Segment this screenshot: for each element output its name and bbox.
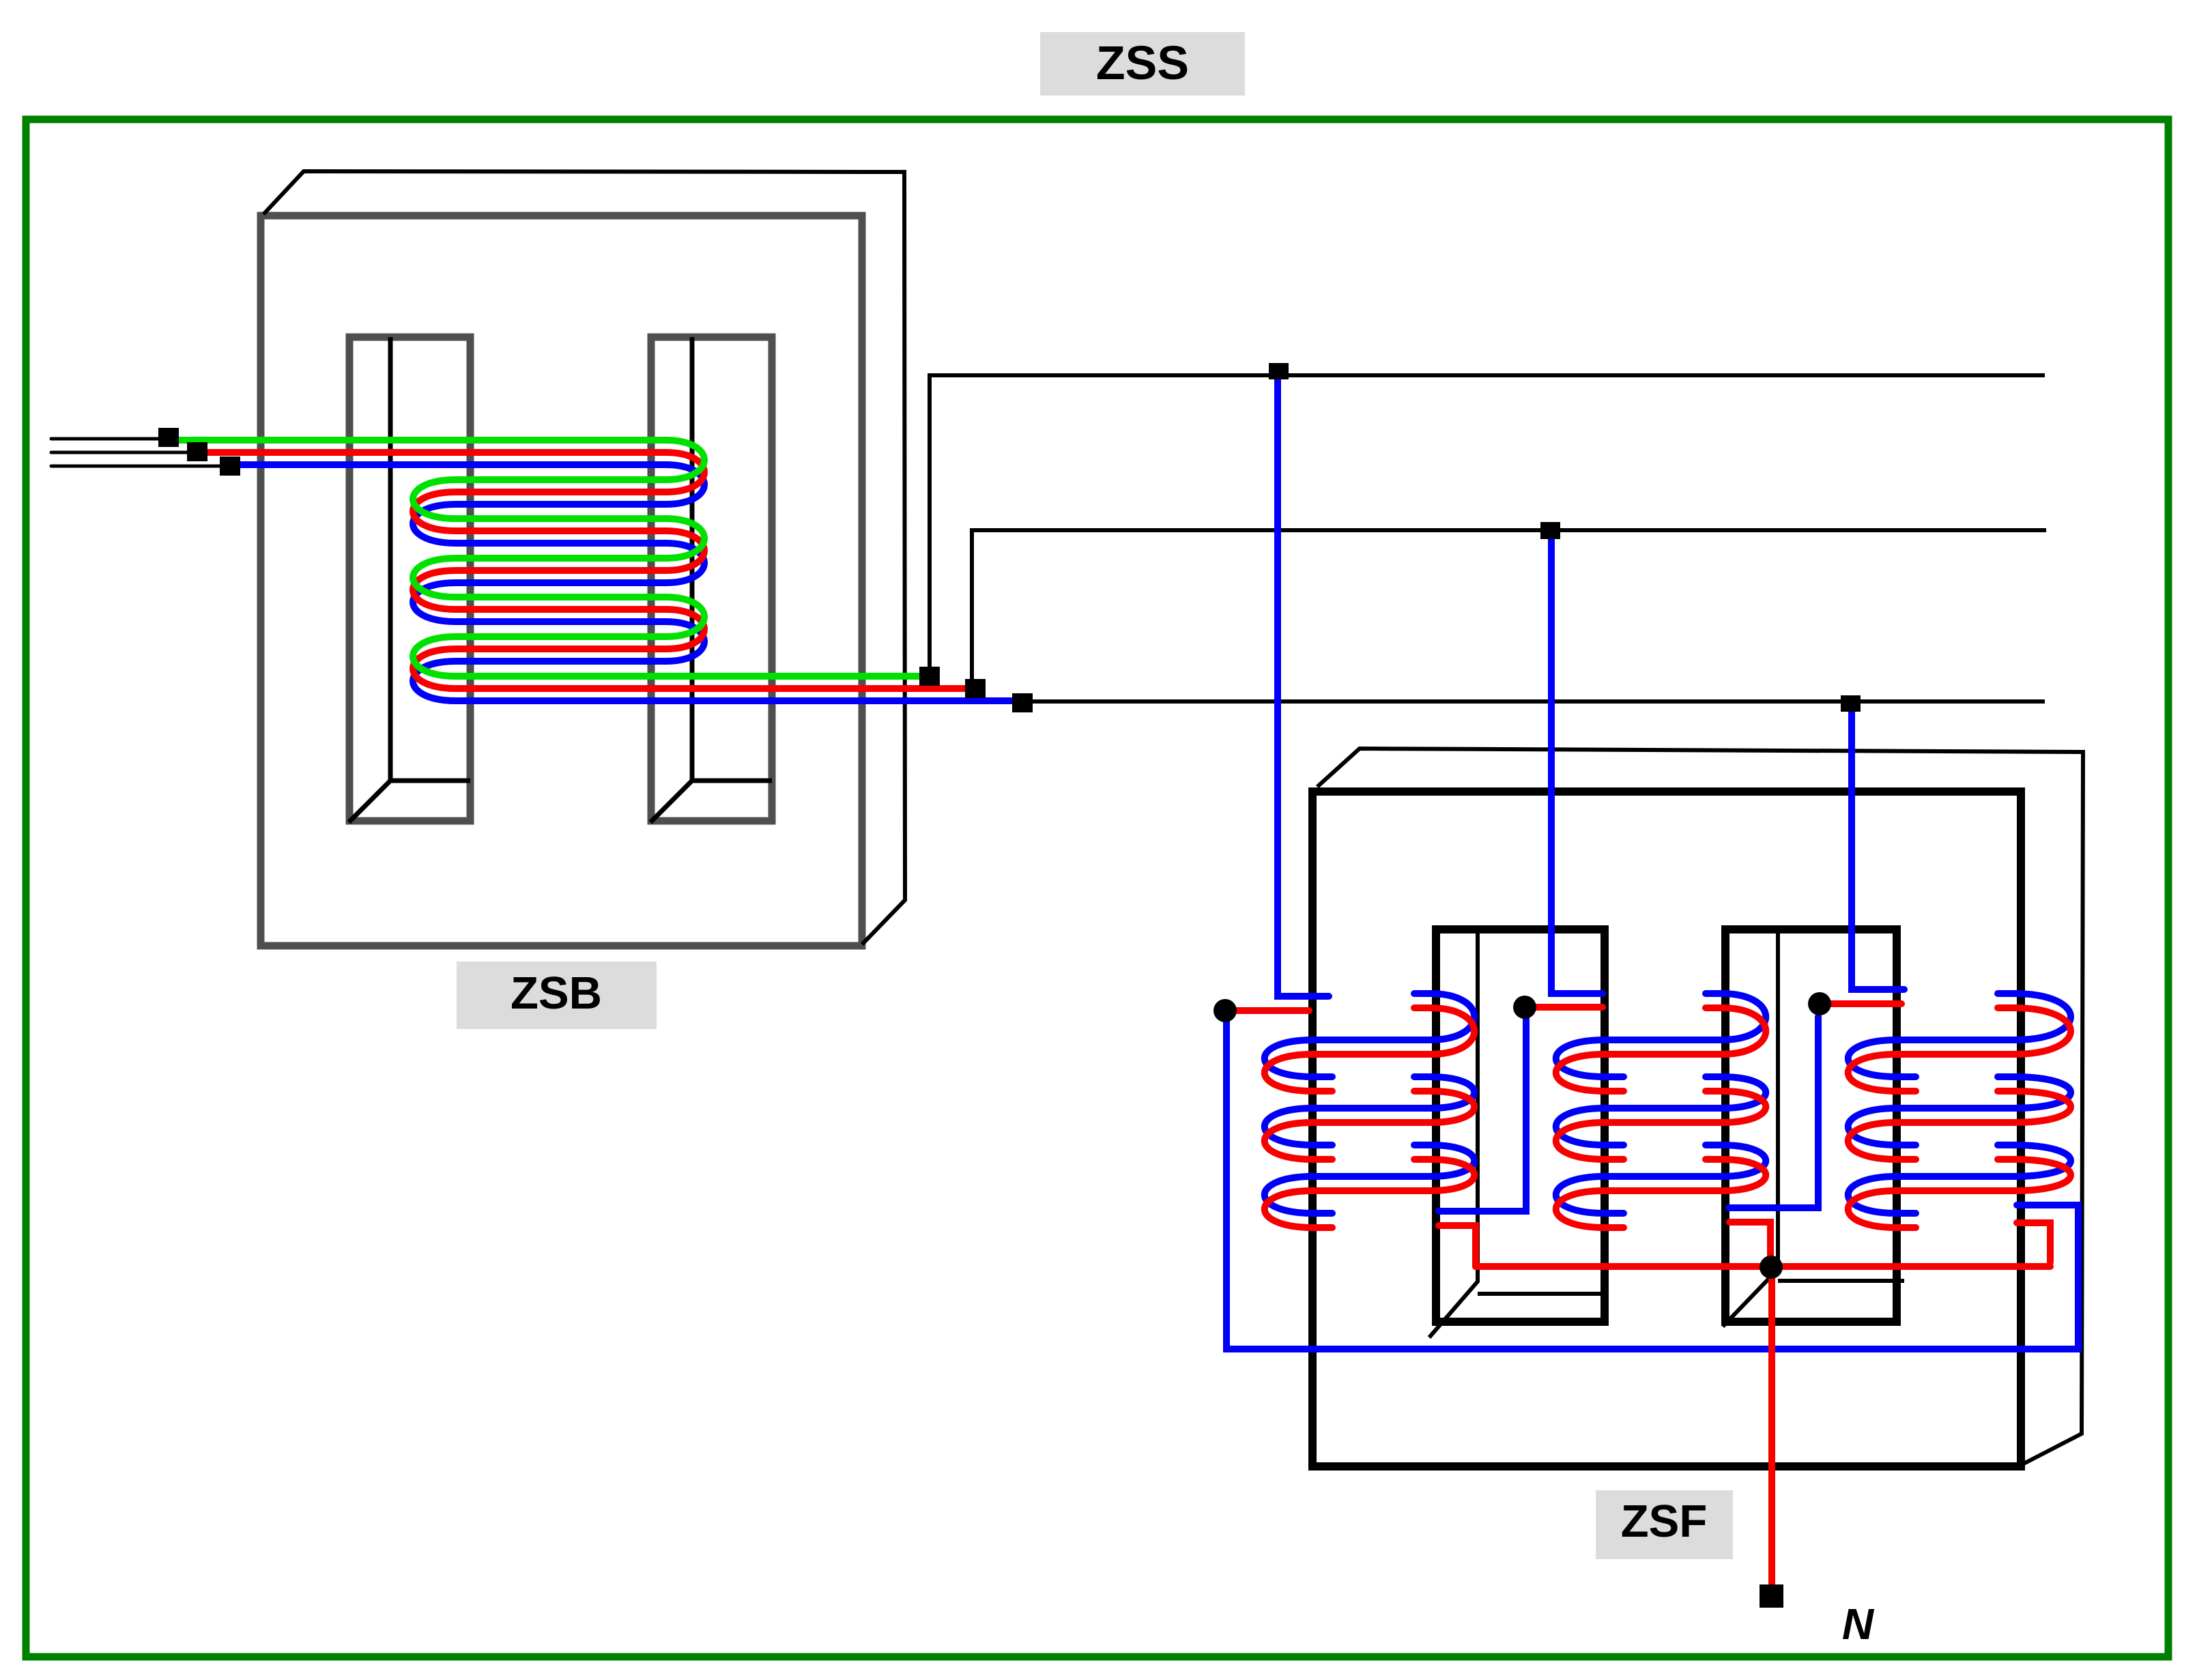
wire blue feed V3 (1852, 706, 1904, 989)
ZSB left window (349, 337, 470, 821)
wire phase C bus (bottom) (1033, 699, 2045, 704)
terminal phase B out (965, 679, 986, 698)
wire phase A riser and bus (top) (930, 375, 2045, 676)
winding ZSB phase B (red) (197, 452, 975, 689)
winding ZSF limb3 (blue) (1848, 994, 2071, 1213)
terminal phase C out (1012, 693, 1033, 712)
svg-text:N: N (1842, 1599, 1875, 1649)
terminal neutral N (1760, 1584, 1783, 1608)
node junction 3 (1808, 992, 1831, 1015)
terminal tap A (1269, 363, 1289, 379)
winding ZSF limb2 (blue) (1556, 994, 1766, 1213)
ZSB right window (651, 337, 772, 821)
ZSF left window depth lines (1429, 929, 1601, 1337)
node ZSB label (457, 961, 657, 1029)
terminal tap B (1540, 522, 1560, 539)
wire neutral bus (red) (1476, 1263, 2050, 1270)
node ZSS label (1040, 32, 1245, 96)
winding ZSB phase A (green) (169, 440, 930, 676)
node junction 1 (1214, 999, 1237, 1022)
wire coil3 red end to neutral bus (2017, 1223, 2050, 1262)
terminal phase A out (919, 667, 940, 686)
winding ZSF limb2 (red) (1556, 1008, 1766, 1228)
transformer core ZSF (3D back edges) (1317, 749, 2083, 1464)
wire neutral lead N (1768, 1267, 1775, 1584)
wire phase B riser and bus (middle) (972, 530, 2046, 689)
terminal input 3 (220, 457, 240, 476)
wire input lead 3 (51, 465, 225, 468)
wire blue feed V1 (1278, 379, 1329, 996)
wire coil2 red end to neutral bus (1729, 1222, 1770, 1262)
ZSF right window depth lines (1723, 929, 1904, 1327)
wire red stub junction2 to limb2 (1525, 1004, 1603, 1011)
winding ZSF limb1 (red) (1265, 1008, 1475, 1228)
ZSB left window depth lines (349, 337, 470, 822)
node junction 2 (1513, 996, 1536, 1019)
wire red stub junction1 to limb1 (1220, 1007, 1309, 1014)
wire coil3 blue end and return bus (1226, 1018, 2078, 1349)
winding ZSF limb1 (blue) (1265, 994, 1475, 1213)
svg-text:ZSF: ZSF (1621, 1496, 1708, 1547)
node junction neutral (1760, 1256, 1783, 1279)
wire input lead 1 (51, 437, 164, 441)
wire blue feed V2 (1551, 534, 1603, 994)
ZSF right window (1725, 929, 1897, 1322)
winding ZSB phase C (blue) (230, 465, 1022, 701)
terminal tap C (1841, 695, 1861, 712)
wire coil1 blue end to junction 2 (1439, 1018, 1526, 1211)
terminal input 2 (187, 442, 207, 461)
node ZSF label (1596, 1490, 1733, 1559)
ZSF left window (1436, 929, 1605, 1322)
svg-text:ZSS: ZSS (1096, 36, 1189, 89)
svg-text:ZSB: ZSB (511, 968, 602, 1019)
transformer core ZSB outer frame (front face) (261, 216, 862, 946)
ZSB right window depth lines (650, 337, 772, 822)
wire red stub junction3 to limb3 (1820, 1000, 1901, 1007)
transformer core ZSF outer frame (front face) (1312, 792, 2021, 1466)
wire coil1 red end to neutral bus (1439, 1226, 1476, 1266)
winding ZSF limb3 (red) (1848, 1008, 2071, 1228)
terminal input 1 (158, 428, 179, 447)
wire input lead 2 (51, 451, 192, 454)
transformer core ZSB (3D back edges) (263, 171, 905, 944)
wire coil2 blue end to junction 3 (1729, 1017, 1818, 1208)
